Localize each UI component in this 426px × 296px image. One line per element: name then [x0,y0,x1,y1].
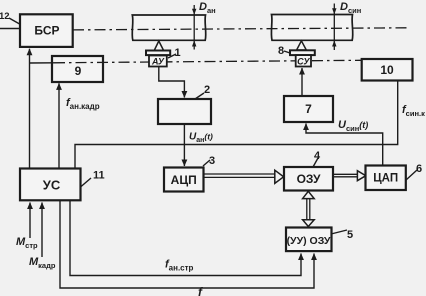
svg-text:(УУ) ОЗУ: (УУ) ОЗУ [287,235,331,247]
svg-text:ОЗУ: ОЗУ [297,172,321,186]
svg-text:7: 7 [305,102,312,116]
svg-text:8: 8 [278,45,284,57]
svg-text:СУ: СУ [297,57,310,67]
svg-text:АУ: АУ [151,57,165,67]
svg-text:9: 9 [75,64,82,78]
svg-text:БСР: БСР [34,24,59,38]
svg-text:12: 12 [0,11,10,22]
svg-text:4: 4 [314,150,321,162]
svg-text:ЦАП: ЦАП [373,173,398,185]
svg-text:6: 6 [416,163,422,175]
svg-text:1: 1 [175,47,181,59]
svg-text:11: 11 [93,170,105,182]
svg-text:АЦП: АЦП [171,173,197,187]
svg-text:2: 2 [204,84,210,96]
svg-text:10: 10 [380,63,394,77]
svg-text:5: 5 [347,229,353,241]
svg-text:УС: УС [43,178,61,193]
svg-text:3: 3 [209,155,215,167]
